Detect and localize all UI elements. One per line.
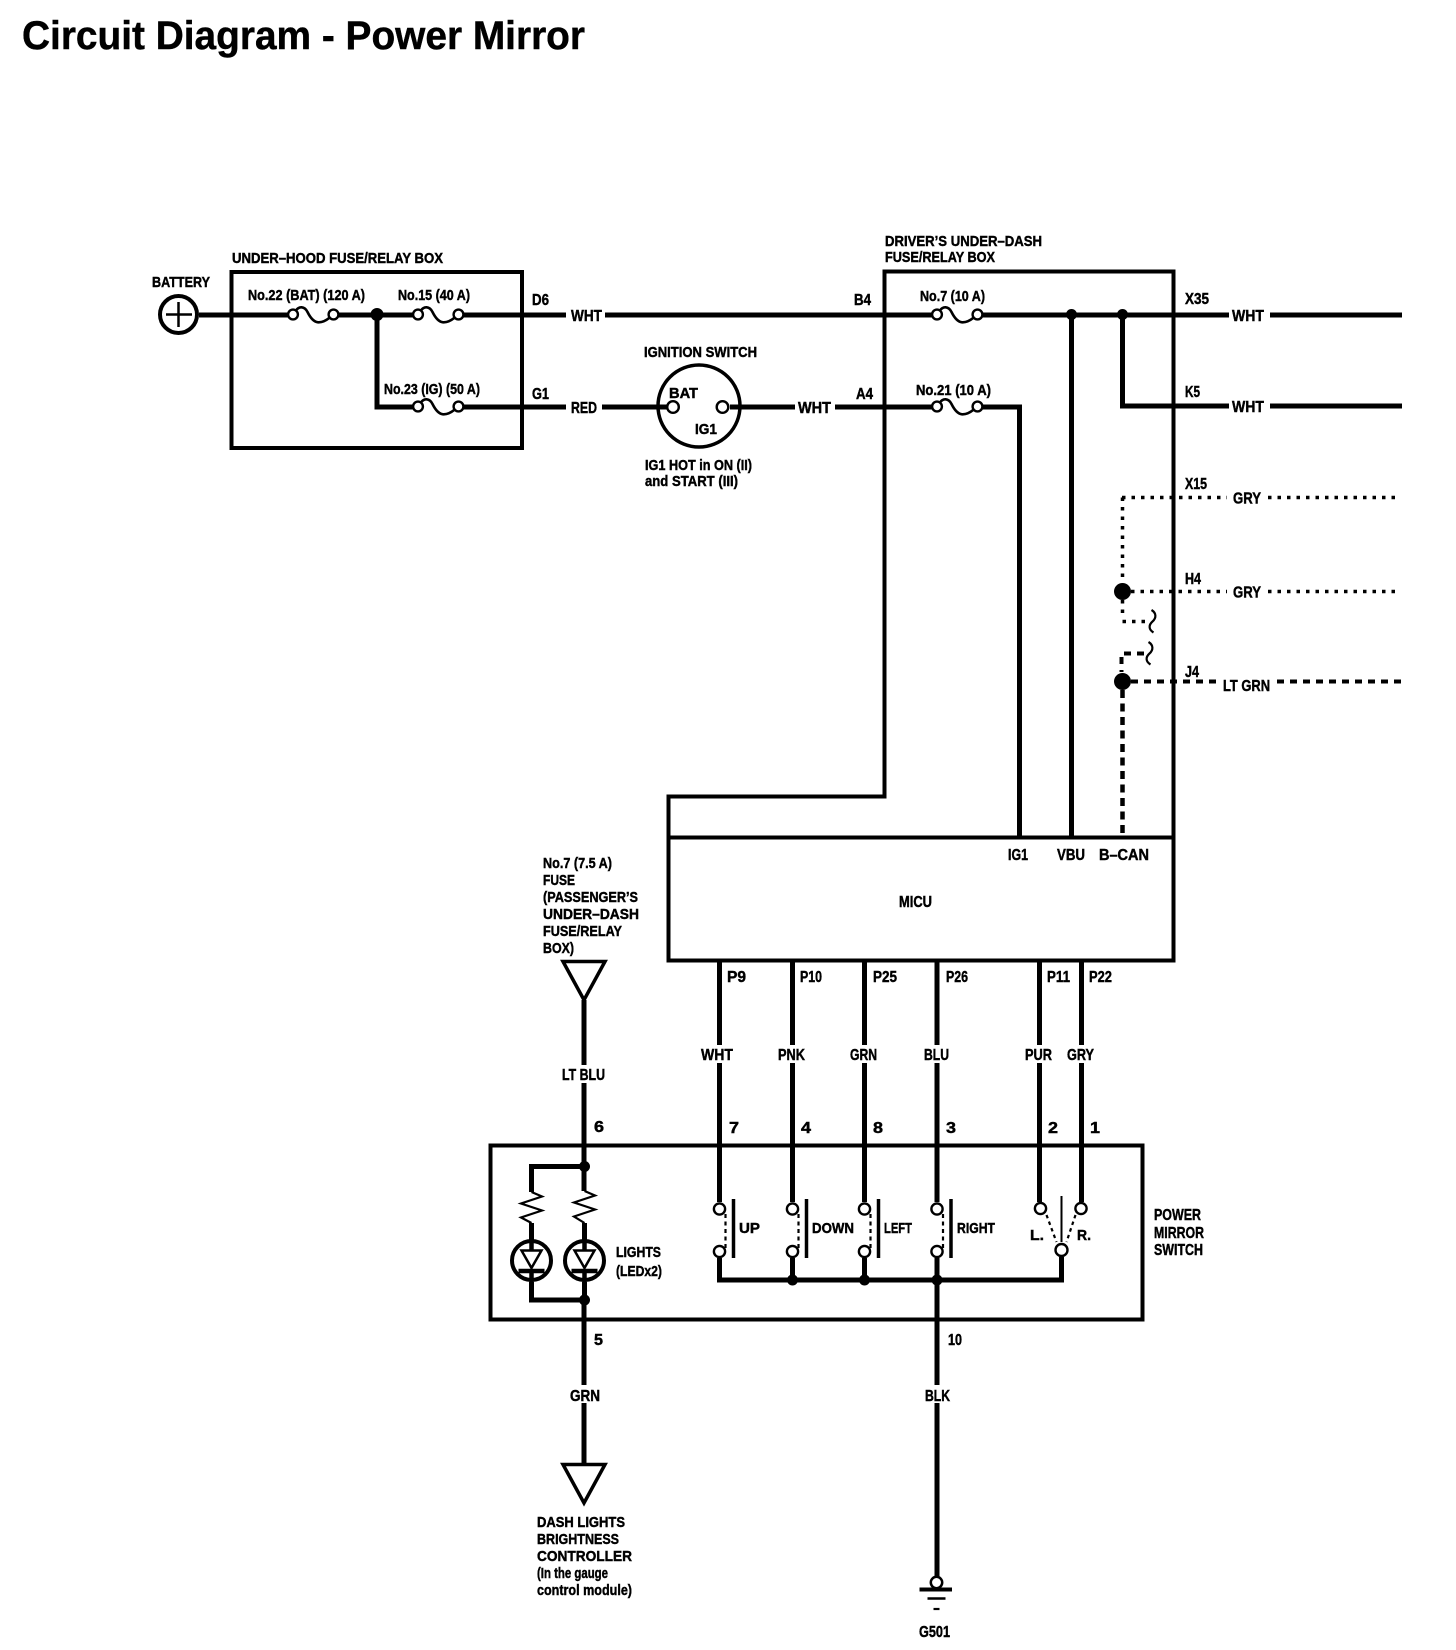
wire IG1 to WHT <box>730 405 795 410</box>
svg-text:GRY: GRY <box>1067 1047 1094 1064</box>
wire label LT BLU <box>559 1065 609 1084</box>
svg-text:DASH LIGHTS: DASH LIGHTS <box>537 1514 625 1531</box>
fuse No.15 (40 A) <box>398 287 470 322</box>
wire LED2 to bottom node <box>582 1282 587 1300</box>
switch L/R selector <box>1030 1145 1091 1282</box>
svg-text:5: 5 <box>594 1332 603 1349</box>
svg-text:PUR: PUR <box>1025 1047 1052 1064</box>
svg-text:K5: K5 <box>1185 384 1200 401</box>
wire VBU vertical <box>1069 315 1074 837</box>
wire common bus <box>717 1278 1064 1283</box>
svg-text:P10: P10 <box>800 969 822 986</box>
svg-text:FUSE: FUSE <box>543 872 575 889</box>
svg-text:RIGHT: RIGHT <box>957 1220 995 1237</box>
wire label PUR <box>1022 1045 1055 1064</box>
junction node H4 <box>1114 583 1131 600</box>
svg-text:GRY: GRY <box>1233 491 1261 508</box>
svg-text:H4: H4 <box>1185 571 1201 588</box>
svg-text:BLU: BLU <box>924 1047 949 1064</box>
wire label GRY <box>1064 1045 1097 1064</box>
wire LT BLU vertical <box>582 1000 587 1145</box>
svg-text:SWITCH: SWITCH <box>1154 1242 1203 1259</box>
svg-text:4: 4 <box>801 1120 811 1137</box>
wire junction to fuse No.15 <box>377 313 414 318</box>
wire pin P22 <box>1079 961 1084 1145</box>
wire pin P25 <box>862 961 867 1145</box>
svg-text:IG1 HOT in ON (II): IG1 HOT in ON (II) <box>645 457 752 474</box>
svg-text:D6: D6 <box>532 292 549 309</box>
continuation squiggle lower <box>1147 642 1153 665</box>
wire dotted vertical X15 to H4 <box>1121 498 1125 584</box>
svg-text:WHT: WHT <box>571 308 602 325</box>
svg-text:CONTROLLER: CONTROLLER <box>537 1548 632 1565</box>
svg-text:UNDER–HOOD FUSE/RELAY BOX: UNDER–HOOD FUSE/RELAY BOX <box>232 250 443 267</box>
svg-text:IGNITION SWITCH: IGNITION SWITCH <box>644 344 757 361</box>
svg-text:B–CAN: B–CAN <box>1099 847 1149 864</box>
svg-text:LT BLU: LT BLU <box>562 1067 605 1084</box>
svg-text:No.7 (10 A): No.7 (10 A) <box>920 288 985 305</box>
wire resistor right to LED2 <box>582 1223 587 1241</box>
junction node lights top <box>579 1161 590 1172</box>
switch RIGHT <box>931 1145 995 1282</box>
svg-text:FUSE/RELAY BOX: FUSE/RELAY BOX <box>885 249 995 266</box>
svg-text:GRY: GRY <box>1233 585 1261 602</box>
svg-text:WHT: WHT <box>1232 308 1264 325</box>
wire LED1 to bottom node <box>532 1282 585 1300</box>
svg-text:DOWN: DOWN <box>812 1220 854 1237</box>
wire pin P10 <box>790 961 795 1145</box>
wire label GRN <box>847 1045 880 1064</box>
wire dotted stub below H4 <box>1123 600 1148 622</box>
wire dashed stub to J4 <box>1122 654 1145 673</box>
ground G501 <box>919 1577 952 1641</box>
wire K5 WHT right <box>1270 404 1402 409</box>
wire H4 dotted horizontal <box>1131 590 1227 594</box>
wire label GRN <box>566 1385 603 1405</box>
wire RED to ignition switch <box>602 405 667 410</box>
svg-text:R.: R. <box>1077 1227 1091 1244</box>
continuation squiggle upper <box>1150 610 1156 633</box>
svg-text:GRN: GRN <box>850 1047 877 1064</box>
svg-text:UNDER–DASH: UNDER–DASH <box>543 906 639 923</box>
under-hood fuse/relay box <box>232 250 523 448</box>
wire resistor left to LED1 <box>529 1223 534 1241</box>
wire K5 branch <box>1123 315 1231 406</box>
svg-text:P22: P22 <box>1089 969 1112 986</box>
junction node K5 branch <box>1117 309 1128 320</box>
connector triangle from fuse No.7 <box>563 962 605 1001</box>
connector triangle to dash lights controller <box>563 1465 605 1504</box>
wire pin P9 <box>717 961 722 1145</box>
svg-text:G501: G501 <box>919 1624 950 1641</box>
wire WHT to fuse No.21 <box>835 405 933 410</box>
resistor left (zigzag) <box>521 1192 542 1223</box>
svg-text:(LEDx2): (LEDx2) <box>616 1263 662 1280</box>
svg-text:2: 2 <box>1048 1120 1058 1137</box>
wire fuse7 to X35 <box>983 313 1231 318</box>
wire label WHT <box>1229 397 1269 416</box>
wire label BLK <box>921 1385 956 1405</box>
svg-text:No.15 (40 A): No.15 (40 A) <box>398 287 470 304</box>
wire label BLU <box>921 1045 952 1064</box>
wire label PNK <box>775 1045 808 1064</box>
wire fuse22 to junction <box>339 313 378 318</box>
svg-text:PNK: PNK <box>778 1047 805 1064</box>
fuse No.21 (10 A) <box>916 382 991 414</box>
svg-text:X35: X35 <box>1185 291 1209 308</box>
wire pin 10 down <box>935 1320 940 1577</box>
wire X35 WHT right <box>1270 313 1402 318</box>
wire pin P11 <box>1037 961 1042 1145</box>
svg-text:BATTERY: BATTERY <box>152 274 210 291</box>
junction node bus P25 <box>859 1275 870 1286</box>
power mirror switch box <box>491 1146 1205 1320</box>
svg-text:UP: UP <box>739 1220 760 1237</box>
svg-text:WHT: WHT <box>701 1047 733 1064</box>
svg-text:IG1: IG1 <box>1008 847 1028 864</box>
svg-text:LEFT: LEFT <box>884 1220 912 1237</box>
junction node bus P26 <box>932 1275 943 1286</box>
svg-text:B4: B4 <box>854 292 871 309</box>
wire B-CAN dashed vertical <box>1120 690 1125 837</box>
wire pin6 into lights node <box>582 1145 587 1191</box>
svg-text:1: 1 <box>1090 1120 1100 1137</box>
svg-text:No.22 (BAT) (120 A): No.22 (BAT) (120 A) <box>248 287 365 304</box>
wire to pin 5 <box>582 1300 587 1320</box>
svg-text:3: 3 <box>946 1120 956 1137</box>
wire X15 dotted horizontal <box>1122 496 1227 500</box>
driver's under-dash fuse/relay box outline (merged with MICU) <box>669 233 1174 961</box>
wire J4 dashed horizontal <box>1131 680 1219 684</box>
svg-text:GRN: GRN <box>570 1388 600 1405</box>
wire label WHT <box>698 1045 736 1064</box>
dash lights brightness controller label <box>537 1514 632 1599</box>
svg-text:POWER: POWER <box>1154 1207 1201 1224</box>
svg-text:RED: RED <box>571 400 597 417</box>
svg-text:FUSE/RELAY: FUSE/RELAY <box>543 923 622 940</box>
junction node lights bottom <box>579 1295 590 1306</box>
wire X15 GRY dotted right <box>1268 496 1401 500</box>
svg-text:BRIGHTNESS: BRIGHTNESS <box>537 1531 619 1548</box>
wire battery to fuse No.22 <box>199 313 288 318</box>
wire pin 5 down <box>582 1320 587 1464</box>
ignition switch <box>644 344 757 490</box>
svg-text:(In the gauge: (In the gauge <box>537 1565 608 1582</box>
svg-text:MIRROR: MIRROR <box>1154 1225 1204 1242</box>
svg-text:MICU: MICU <box>899 894 932 911</box>
svg-text:No.7 (7.5 A): No.7 (7.5 A) <box>543 855 612 872</box>
battery <box>152 274 210 333</box>
LED2 <box>565 1241 604 1282</box>
svg-text:control module): control module) <box>537 1582 632 1599</box>
switch DOWN <box>787 1145 854 1282</box>
label LIGHTS (LEDx2) <box>616 1244 662 1280</box>
MICU box top line <box>668 836 1173 840</box>
svg-text:BAT: BAT <box>669 385 698 402</box>
fuse No.7 (10 A) <box>920 288 985 322</box>
fuse No.22 (BAT) (120 A) <box>248 287 365 322</box>
svg-text:Circuit Diagram - Power Mirror: Circuit Diagram - Power Mirror <box>22 14 585 58</box>
wire WHT to B4 <box>605 313 933 318</box>
wire label WHT <box>1229 306 1269 325</box>
fuse No.7 (7.5 A) label block <box>543 855 639 957</box>
svg-text:X15: X15 <box>1185 476 1207 493</box>
svg-text:P26: P26 <box>946 969 968 986</box>
svg-text:WHT: WHT <box>1232 399 1264 416</box>
svg-text:No.21 (10 A): No.21 (10 A) <box>916 382 991 399</box>
wire fuse23 to G1 <box>464 405 567 410</box>
resistor right (zigzag) <box>574 1191 595 1223</box>
svg-text:J4: J4 <box>1185 664 1199 681</box>
svg-text:IG1: IG1 <box>695 421 717 438</box>
svg-text:and START (III): and START (III) <box>645 473 738 490</box>
svg-text:LT GRN: LT GRN <box>1223 678 1270 695</box>
junction node J4 <box>1114 673 1131 690</box>
wire H4 GRY dotted right <box>1268 590 1401 594</box>
svg-text:P11: P11 <box>1047 969 1070 986</box>
svg-text:P25: P25 <box>873 969 897 986</box>
svg-text:DRIVER’S UNDER–DASH: DRIVER’S UNDER–DASH <box>885 233 1042 250</box>
svg-text:10: 10 <box>948 1332 962 1349</box>
svg-text:No.23 (IG) (50 A): No.23 (IG) (50 A) <box>384 381 480 398</box>
wire fuse21 to IG1 pin <box>983 407 1020 837</box>
svg-text:8: 8 <box>873 1120 883 1137</box>
svg-text:A4: A4 <box>856 386 873 403</box>
svg-text:VBU: VBU <box>1057 847 1085 864</box>
svg-text:P9: P9 <box>727 969 746 986</box>
wire pin P26 <box>935 961 940 1145</box>
junction node VBU <box>1066 309 1077 320</box>
LED1 <box>512 1241 551 1282</box>
svg-text:G1: G1 <box>532 386 549 403</box>
junction node <box>371 308 384 321</box>
switch LEFT <box>859 1145 912 1282</box>
junction node bus P10 <box>787 1275 798 1286</box>
svg-text:BOX): BOX) <box>543 940 574 957</box>
wire bus to pin 10 <box>935 1280 940 1320</box>
svg-text:L.: L. <box>1030 1227 1044 1244</box>
switch UP <box>714 1145 760 1282</box>
svg-text:(PASSENGER’S: (PASSENGER’S <box>543 889 638 906</box>
svg-text:6: 6 <box>594 1119 604 1136</box>
svg-text:WHT: WHT <box>798 400 831 417</box>
svg-text:7: 7 <box>729 1120 739 1137</box>
wire to left resistor <box>532 1167 585 1193</box>
svg-text:BLK: BLK <box>925 1388 950 1405</box>
svg-text:LIGHTS: LIGHTS <box>616 1244 661 1261</box>
fuse No.23 (IG) (50 A) <box>384 381 480 414</box>
wire fuse15 to D6 <box>464 313 567 318</box>
wire J4 LT GRN dashed right <box>1277 680 1401 684</box>
wire junction down to fuse No.23 <box>377 315 414 407</box>
